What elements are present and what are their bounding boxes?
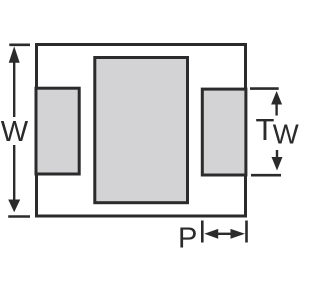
dimension W: lower arrow — [13, 145, 15, 201]
right terminal pad — [202, 89, 246, 175]
svg-text:W: W — [1, 116, 29, 148]
left terminal pad — [36, 88, 79, 174]
svg-text:W: W — [273, 119, 299, 150]
dimension TW: up arrow — [271, 91, 282, 105]
svg-text:P: P — [178, 223, 197, 255]
dimension P: extension ticks — [201, 221, 204, 243]
dimension W: upper arrow — [9, 46, 20, 62]
dimension W: extension ticks — [9, 43, 30, 46]
dimension P: double arrow — [204, 229, 218, 239]
center terminal pad — [95, 58, 188, 203]
dimension TW: extension ticks — [250, 87, 279, 90]
svg-text:T: T — [256, 112, 275, 147]
dimension TW: down arrow — [276, 150, 278, 158]
component body outline — [37, 45, 246, 217]
